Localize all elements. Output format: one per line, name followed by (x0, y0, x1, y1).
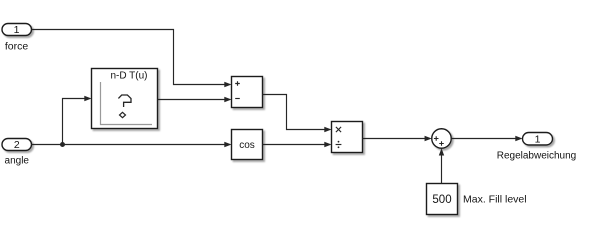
inport 2 (angle) (2, 139, 32, 152)
svg-text:n-D T(u): n-D T(u) (110, 71, 147, 82)
outport 1 (Regelabweichung) (523, 133, 553, 146)
svg-text:500: 500 (432, 194, 451, 206)
divide symbol (336, 144, 342, 146)
wire cos to Product input 2 (263, 142, 332, 147)
question mark glyph (118, 95, 131, 107)
wire force to Sum input 1 (32, 30, 232, 88)
lookup table block n-D T(u) (92, 69, 158, 129)
sum block (+ -) (232, 77, 263, 108)
diamond dot of question mark (120, 112, 126, 117)
inport 1 (force) (2, 24, 32, 37)
wire angle to cos (32, 142, 232, 147)
cos block (232, 130, 263, 160)
wire Product to Add circle (363, 136, 432, 141)
wire branch angle to lookup table (63, 96, 92, 145)
axis lines (101, 82, 153, 125)
svg-text:1: 1 (535, 134, 541, 146)
junction dot (60, 142, 65, 147)
svg-text:cos: cos (239, 140, 255, 151)
svg-text:Regelabweichung: Regelabweichung (497, 151, 577, 162)
sum circle Add (432, 129, 452, 149)
svg-text:Max. Fill level: Max. Fill level (463, 194, 527, 206)
svg-text:1: 1 (14, 24, 20, 36)
wire constant 500 to Add circle bottom (439, 148, 444, 183)
wire Add circle to outport (451, 136, 522, 141)
wire Sum to Product input 1 (263, 95, 332, 133)
svg-text:angle: angle (5, 156, 30, 167)
product block (x /) (332, 122, 363, 153)
multiply symbol (336, 127, 341, 132)
wire lookup table to Sum input 2 (158, 97, 232, 102)
svg-text:2: 2 (14, 139, 20, 151)
svg-text:force: force (5, 41, 29, 53)
constant block 500 (427, 184, 458, 215)
